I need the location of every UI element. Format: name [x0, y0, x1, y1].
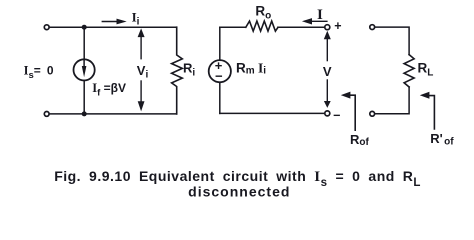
wire middle left rail — [219, 27, 221, 60]
wire RL top lead — [375, 27, 409, 54]
svg-text:+: + — [334, 19, 341, 33]
node junction top — [82, 25, 87, 30]
svg-text:V: V — [323, 64, 332, 79]
svg-text:I: I — [317, 7, 323, 23]
wire RL bottom lead — [375, 87, 409, 114]
terminal bottom-left — [44, 112, 49, 117]
terminal top-right — [370, 25, 375, 30]
terminal top-left — [44, 25, 49, 30]
svg-text:disconnected: disconnected — [188, 184, 290, 200]
svg-text:Ii: Ii — [132, 9, 140, 27]
wire top rail left section — [50, 26, 177, 28]
node junction bottom — [82, 111, 87, 116]
svg-text:Rof: Rof — [350, 132, 369, 148]
svg-text:−: − — [215, 69, 223, 84]
terminal bottom-right — [370, 111, 375, 116]
svg-text:Ri: Ri — [183, 60, 195, 78]
wire bottom rail left section — [50, 113, 177, 115]
svg-text:Vi: Vi — [137, 63, 149, 81]
resistor Ri zigzag — [172, 27, 183, 114]
resistor RL zigzag — [404, 55, 414, 87]
arrow Rof (hooked measurement arrow) — [350, 95, 355, 130]
svg-text:R'of: R'of — [430, 131, 454, 148]
svg-text:Is= 0: Is= 0 — [24, 64, 55, 81]
wire middle top rail — [220, 26, 246, 28]
svg-text:RL: RL — [418, 61, 434, 79]
voltage arrow V (double arrow) — [326, 39, 328, 61]
arrow R'of (hooked measurement arrow) — [429, 96, 434, 129]
svg-text:If =βV: If =βV — [92, 81, 126, 98]
current arrow I (pointing left) — [312, 20, 327, 22]
current arrow Ii — [102, 21, 117, 23]
wire current-source bottom lead — [83, 80, 85, 114]
voltage arrow Vi (double arrow) — [140, 37, 142, 59]
current source internal arrow — [83, 61, 85, 67]
wire current-source top lead — [83, 27, 85, 59]
current source If=betaV circle — [74, 59, 95, 80]
svg-text:−: − — [333, 109, 340, 123]
terminal plus (middle right top) — [325, 25, 330, 30]
terminal minus (middle right bottom) — [325, 111, 330, 116]
wire middle bottom rail — [220, 112, 325, 114]
resistor Ro zigzag — [246, 21, 278, 31]
dependent voltage source Rm Ii circle — [209, 60, 231, 82]
svg-text:Rm Ii: Rm Ii — [236, 60, 266, 76]
svg-text:Ro: Ro — [255, 3, 271, 21]
